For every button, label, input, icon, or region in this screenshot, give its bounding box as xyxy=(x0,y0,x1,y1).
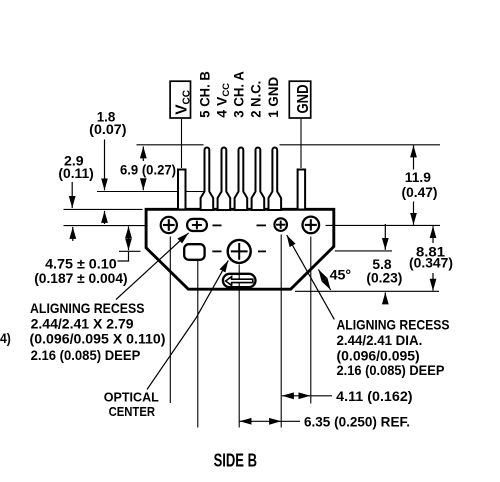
GND label box xyxy=(289,81,310,118)
chamfer-start extension line right xyxy=(335,250,392,252)
svg-text:5 CH. B: 5 CH. B xyxy=(196,71,212,118)
index slot stadium xyxy=(223,274,256,287)
extension line below right mounting circle xyxy=(310,237,312,404)
svg-text:(0.07): (0.07) xyxy=(89,121,126,137)
optical centerline tick left xyxy=(119,250,141,252)
centerline dash right of ellipse xyxy=(213,224,222,226)
leader to left aligning recess xyxy=(116,233,189,300)
svg-text:(0.47): (0.47) xyxy=(402,184,438,200)
pin 1 xyxy=(269,147,282,210)
dim 8.81 upper arrow xyxy=(432,226,434,243)
svg-text:2.44/2.41 X 2.79: 2.44/2.41 X 2.79 xyxy=(31,316,134,332)
extension line below right aligning recess xyxy=(280,235,282,428)
svg-text:2.44/2.41 DIA.: 2.44/2.41 DIA. xyxy=(337,332,423,348)
encoder body outline xyxy=(146,209,334,289)
pin 5 xyxy=(201,147,214,210)
dim 4.75 leader hook xyxy=(118,252,129,261)
left aligning recess ellipse xyxy=(187,219,207,231)
svg-text:11.9: 11.9 xyxy=(405,169,431,185)
extension line below aligning recess square xyxy=(197,261,199,428)
svg-text:3 CH. A: 3 CH. A xyxy=(230,71,246,118)
svg-text:(0.096/0.095): (0.096/0.095) xyxy=(337,347,420,363)
svg-text:GND: GND xyxy=(295,85,312,114)
pin 2 xyxy=(252,148,265,211)
dim 11.9 lower arrow xyxy=(413,202,415,225)
svg-text:(0.23): (0.23) xyxy=(366,270,402,286)
dim 4.11 leader to text xyxy=(311,395,332,397)
dim 4.75 double arrow xyxy=(128,226,130,250)
svg-text:(0.347): (0.347) xyxy=(409,255,453,271)
pin 3 xyxy=(235,147,248,210)
svg-text:ALIGNING RECESS: ALIGNING RECESS xyxy=(30,300,145,316)
GND lead pin xyxy=(298,170,306,210)
dim 8.81 lower arrow xyxy=(432,273,434,291)
svg-text:(0.187 ± 0.004): (0.187 ± 0.004) xyxy=(34,270,127,286)
svg-text:6.35 (0.250) REF.: 6.35 (0.250) REF. xyxy=(304,413,410,429)
mounting centerline extension left xyxy=(64,225,147,227)
body top extension line xyxy=(64,208,143,210)
dim 5.8 upper arrow xyxy=(384,224,386,250)
optical centerline dash right xyxy=(258,250,266,252)
pin-top reference line right xyxy=(280,144,441,146)
svg-text:4.11 (0.162): 4.11 (0.162) xyxy=(336,388,412,404)
svg-text:ALIGNING RECESS: ALIGNING RECESS xyxy=(337,317,450,333)
index arrow glyph xyxy=(226,277,253,286)
centerline dash left of right recess xyxy=(257,224,267,226)
dim 1.8 lower arrow xyxy=(104,211,106,224)
dim 1.8 upper arrow xyxy=(104,140,106,191)
dim 5.8 lower arrow xyxy=(384,292,386,303)
optical centerline dash left xyxy=(212,250,221,252)
pin-top reference line left xyxy=(137,144,204,146)
Vcc leader line xyxy=(181,119,183,168)
svg-text:(0.11): (0.11) xyxy=(58,165,93,181)
svg-text:2.16 (0.085) DEEP: 2.16 (0.085) DEEP xyxy=(31,347,141,363)
right mounting circle xyxy=(303,217,320,234)
right aligning recess circle xyxy=(274,218,287,231)
extension line below optical center xyxy=(238,265,240,428)
svg-text:2.16 (0.085) DEEP: 2.16 (0.085) DEEP xyxy=(337,362,445,378)
dim 6.9 lower arrow xyxy=(142,180,144,191)
mounting centerline extension right xyxy=(326,224,441,226)
svg-text:6.9 (0.27): 6.9 (0.27) xyxy=(120,162,176,178)
dim 6.9 upper arrow xyxy=(142,146,144,161)
aligning recess square xyxy=(184,244,204,260)
pin shoulder reference line xyxy=(97,191,204,193)
dim 6.35 arrows xyxy=(240,420,282,422)
svg-text:OPTICAL: OPTICAL xyxy=(104,390,159,405)
svg-text:45°: 45° xyxy=(330,267,352,283)
leader to right aligning recess xyxy=(287,235,335,319)
dim 6.35 leader to text xyxy=(282,420,301,422)
GND leader line xyxy=(300,119,302,168)
extension line below left mounting circle xyxy=(169,237,171,404)
pin 4 xyxy=(218,147,231,210)
Vcc lead pin xyxy=(178,170,186,210)
dim 2.9 lower arrow xyxy=(72,227,74,241)
left mounting circle xyxy=(161,217,177,233)
dim 11.9 upper arrow xyxy=(413,145,415,169)
dim 4.11 arrows xyxy=(282,395,311,397)
svg-text:1 GND: 1 GND xyxy=(265,77,281,118)
dim 45 degree double arrow xyxy=(318,269,330,290)
svg-text:4): 4) xyxy=(0,330,11,346)
svg-text:CENTER: CENTER xyxy=(109,404,156,419)
svg-text:2 N.C.: 2 N.C. xyxy=(247,81,263,118)
leader to optical center xyxy=(147,260,228,389)
optical center circle xyxy=(228,240,251,263)
svg-text:SIDE B: SIDE B xyxy=(214,451,257,471)
body bottom extension line right xyxy=(295,290,439,292)
svg-text:(0.096/0.095 X 0.110): (0.096/0.095 X 0.110) xyxy=(30,331,166,347)
Vcc label box xyxy=(170,81,190,118)
dim 2.9 upper arrow xyxy=(71,182,73,208)
